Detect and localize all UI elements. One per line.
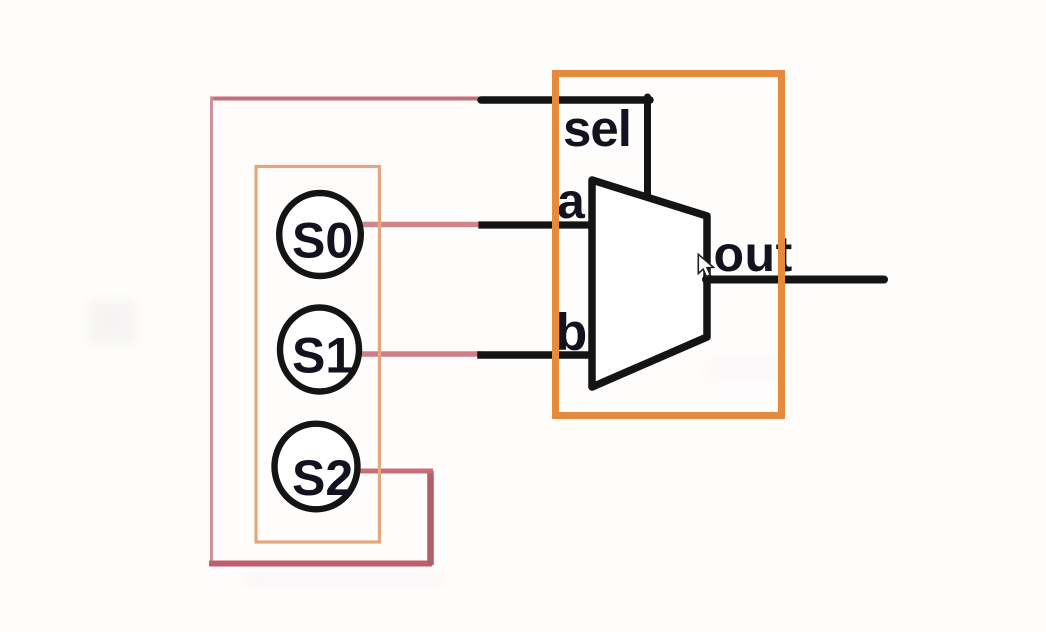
svg-text:a: a — [557, 173, 586, 229]
wire red stub from S2 circle — [356, 469, 433, 474]
svg-text:b: b — [556, 304, 588, 362]
mouse cursor — [698, 254, 713, 276]
wire black input b — [481, 351, 592, 359]
svg-text:S0: S0 — [292, 213, 353, 269]
svg-text:sel: sel — [563, 100, 631, 157]
mux trapezoid body U1 — [592, 180, 707, 387]
wire red S2-to-sel loop: left vertical segment — [210, 97, 213, 565]
svg-text:S2: S2 — [292, 450, 353, 506]
wire black input a — [482, 221, 592, 228]
node S0 circle — [279, 193, 361, 276]
svg-text:S1: S1 — [292, 328, 353, 384]
wire red stub from S0 to input a — [359, 222, 483, 228]
wire red stub from S1 to input b — [354, 351, 482, 357]
wire red S2-to-sel loop: right vertical segment — [427, 471, 434, 565]
wire red S2-to-sel loop: bottom horizontal segment — [209, 561, 432, 567]
box around signal sources (pale orange, drawn on top) — [256, 167, 380, 543]
box around mux (orange, drawn on top) — [556, 74, 782, 416]
node S2 circle — [275, 424, 358, 510]
node S1 circle — [280, 308, 359, 392]
wire black sel horizontal — [481, 96, 650, 104]
wire black output — [706, 276, 884, 284]
wire red S2-to-sel loop: top horizontal segment — [210, 97, 481, 101]
wire black sel vertical drop to mux — [644, 97, 651, 198]
